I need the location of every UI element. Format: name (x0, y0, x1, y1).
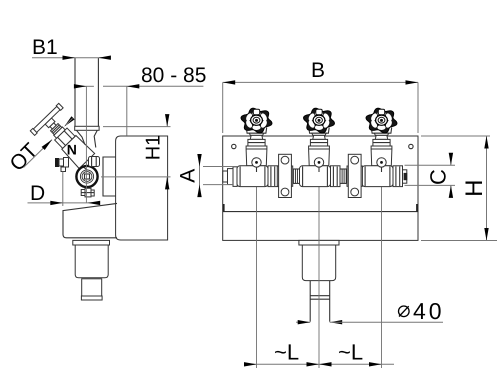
svg-text:~L: ~L (338, 340, 363, 365)
svg-text:H: H (461, 180, 488, 197)
svg-text:H1: H1 (143, 135, 165, 161)
svg-text:80 - 85: 80 - 85 (141, 64, 206, 87)
svg-text:B: B (311, 59, 325, 82)
svg-text:A: A (177, 169, 200, 183)
svg-text:B1: B1 (32, 36, 58, 59)
svg-text:40: 40 (413, 298, 445, 324)
svg-text:C: C (426, 169, 451, 185)
svg-text:~L: ~L (274, 340, 299, 365)
svg-text:D: D (30, 182, 45, 205)
svg-text:N: N (67, 142, 77, 158)
